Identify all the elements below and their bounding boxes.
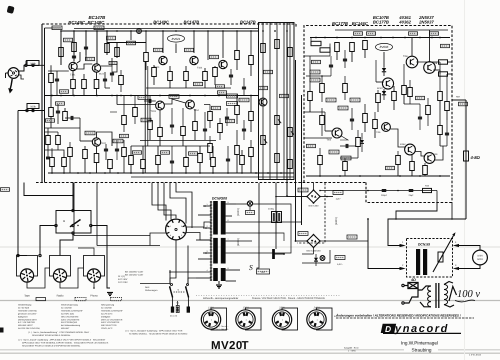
junction bottom rail <box>199 172 201 174</box>
svg-text:Ballspecht: Ballspecht <box>18 315 28 318</box>
resistor R16 <box>50 158 55 167</box>
diode D201 <box>382 68 386 72</box>
resistor R40 <box>249 112 254 121</box>
svg-text:Geräteleistung: Geräteleistung <box>18 304 31 307</box>
bus rail bottom y173 <box>48 172 294 174</box>
svg-text:T/09: T/09 <box>433 153 438 156</box>
svg-text:BC177B: BC177B <box>373 20 389 25</box>
svg-text:T/05: T/05 <box>376 131 381 134</box>
svg-text:( 4 ) · Bei md...: ( 4 ) · Bei md... <box>216 328 230 331</box>
resistor R27 <box>158 128 163 137</box>
svg-text:AC 10k/Volt: AC 10k/Volt <box>61 306 72 309</box>
svg-text:( 1 ) · Nur in „Sonderausführu: ( 1 ) · Nur in „Sonderausführung“ · FOR … <box>28 331 91 334</box>
label box g2 <box>109 61 117 64</box>
transformer core bar right <box>221 201 226 281</box>
junction <box>193 30 195 32</box>
junction mid rail <box>189 95 191 97</box>
svg-text:Radio: Radio <box>57 295 64 298</box>
junction rings ch2 <box>26 109 28 111</box>
hand core <box>435 283 437 308</box>
transformer stub r7 <box>226 269 240 271</box>
svg-text:MELUNT: MELUNT <box>61 327 70 330</box>
resistor R85 <box>133 108 138 117</box>
resistor R45 <box>288 48 293 57</box>
svg-text:8V021: 8V021 <box>172 37 181 41</box>
staircase wire s3 <box>368 219 400 269</box>
rotary selector Radio <box>50 256 71 277</box>
svg-text:AU RMV 10/Ω: AU RMV 10/Ω <box>61 312 74 315</box>
rotary selector Tape <box>17 256 38 277</box>
wire elco top <box>275 183 277 212</box>
transformer stub l8 <box>196 277 211 279</box>
tube socket V1 <box>166 219 187 240</box>
wire rotary1 feed <box>18 255 27 257</box>
bus v x287 long <box>286 23 288 197</box>
junction b2 bottom <box>359 175 361 177</box>
svg-text:( 3 ) · Nur m...: ( 3 ) · Nur m... <box>216 325 229 328</box>
wire row y140 <box>140 140 216 142</box>
transformer stub r3 <box>226 221 246 223</box>
wire mid h y104 <box>117 104 156 106</box>
wire v x163 <box>162 31 164 53</box>
snubber row wire <box>320 190 437 192</box>
junction <box>116 30 118 32</box>
staircase wire s4 <box>396 203 437 220</box>
capacitor C17 <box>242 86 246 88</box>
resistor R56 <box>392 92 397 101</box>
resistor R57 <box>402 86 407 95</box>
wire emitter T202 <box>433 69 440 71</box>
svg-text:Ausgabe : 9.b.b: Ausgabe : 9.b.b <box>344 346 359 349</box>
svg-text:Tape: Tape <box>24 295 30 298</box>
junction bottom rail <box>89 172 91 174</box>
junction b2 top <box>351 37 353 39</box>
switch lever <box>71 220 81 227</box>
wire collector T102 <box>97 132 113 146</box>
resistor R29 <box>193 122 198 131</box>
svg-text:BC/4: BC/4 <box>99 73 105 76</box>
wire lower left rows <box>45 150 65 152</box>
svg-text:Netzspannung: Netzspannung <box>101 304 114 307</box>
transformer stub r2 <box>226 215 232 217</box>
junction mid rail <box>204 95 206 97</box>
junction <box>162 30 164 32</box>
potentiometer P1 <box>275 116 280 125</box>
svg-text:240V: 240V <box>313 307 320 310</box>
resistor R42 <box>249 148 254 157</box>
svg-text:APPLICABLE ONLY FOR GENERAL EX: APPLICABLE ONLY FOR GENERAL EXPORT MODEL… <box>22 342 109 345</box>
transformer stub r5 <box>226 240 252 242</box>
hand check arrow <box>449 287 457 302</box>
capacitor C16 <box>226 158 230 160</box>
DIN input jack J1 <box>8 68 19 79</box>
diode D30 <box>314 258 318 261</box>
svg-text:T104: T104 <box>194 109 200 112</box>
resistor R4 <box>72 43 77 52</box>
pilot lamp <box>247 201 252 206</box>
resistor R32 <box>156 156 161 165</box>
transformer winding ticks <box>210 201 212 203</box>
svg-text:Netz: Netz <box>145 286 150 289</box>
socket view 110V <box>211 308 227 330</box>
board2 rail2 <box>335 29 448 31</box>
rule line bottom <box>0 352 500 354</box>
wire switch drops <box>169 270 171 285</box>
resistor R50 <box>311 41 321 45</box>
svg-text:Straubing: Straubing <box>411 347 431 352</box>
OT diagonal arrow <box>433 236 454 273</box>
capacitor C18 <box>242 128 246 130</box>
wire cross h246 <box>97 245 160 247</box>
wire mains h <box>140 283 170 285</box>
wire v x107 <box>106 31 108 55</box>
wire board1 v73 <box>72 183 74 196</box>
resistor R6 <box>115 48 120 57</box>
junction bottom rail <box>241 172 243 174</box>
svg-text:TENSION ALTERNATIF: TENSION ALTERNATIF <box>101 309 124 312</box>
svg-text:R43: R43 <box>425 185 430 188</box>
socket view 120V <box>246 308 262 330</box>
wire row y146 <box>131 145 210 147</box>
resistor R46 <box>275 154 280 163</box>
svg-text:2: 2 <box>207 225 208 228</box>
svg-text:Änderungen vorbehalten ! ALTER: Änderungen vorbehalten ! ALTERATIONS RES… <box>335 314 461 318</box>
label box b1 <box>354 32 363 35</box>
wire tone v4 <box>283 23 285 180</box>
resistor R3 <box>59 48 64 57</box>
elco C10 on rail <box>137 29 142 34</box>
Dynacord logo block <box>381 324 396 333</box>
snubber end wire <box>436 191 438 203</box>
wire v x117 <box>116 43 118 59</box>
chassis ground G2 <box>272 249 275 259</box>
wire b2 right col <box>440 145 447 147</box>
hand underline swoosh <box>455 300 475 302</box>
junction rings selector <box>17 254 19 256</box>
junction b2 bottom <box>419 175 421 177</box>
resistor R12 <box>63 112 68 121</box>
svg-text:7: 7 <box>228 238 229 241</box>
staircase wires to tube <box>152 183 166 221</box>
wire out to edge <box>452 99 466 101</box>
registration mark left edge <box>0 328 4 333</box>
junction bottom rail <box>117 172 119 174</box>
label box GR1a <box>298 188 308 192</box>
rotary selector Phono <box>84 256 105 277</box>
label box d3 <box>338 106 348 110</box>
svg-text:TENSION ALTERNATIF: TENSION ALTERNATIF <box>61 309 84 312</box>
svg-text:Bei 110/125V 1,6AT: Bei 110/125V 1,6AT <box>125 274 144 277</box>
resistor R39 <box>235 106 240 115</box>
boxes row y82 <box>194 82 203 85</box>
fuse F3 <box>187 307 190 313</box>
junction <box>262 30 264 32</box>
svg-text:2x40μ: 2x40μ <box>268 208 275 211</box>
arrow into OT pin2 <box>400 267 406 270</box>
junction bottom rail <box>185 172 187 174</box>
junction b2 top <box>439 37 441 39</box>
svg-text:MV20: MV20 <box>211 340 243 352</box>
svg-text:MITH AC-VOLTMETER: MITH AC-VOLTMETER <box>101 318 123 321</box>
wire b2 left <box>304 55 330 57</box>
fold crease vertical <box>464 0 466 360</box>
transformer bottom ground <box>218 281 220 284</box>
arrow into OT pin4 <box>453 244 459 247</box>
wire v x208 <box>207 31 209 60</box>
junction b2 bottom <box>339 175 341 177</box>
wire trafo to GR2 <box>296 240 308 242</box>
resistor R90 <box>343 162 348 171</box>
capacitor C13 <box>170 124 174 126</box>
wire psu left drop <box>258 183 260 261</box>
fuse F1 <box>171 307 174 313</box>
svg-text:4: 4 <box>455 241 457 244</box>
junction bottom rail <box>77 172 79 174</box>
resistor R20 <box>144 53 149 62</box>
output transformer dashed box <box>407 239 453 278</box>
resistor R33 <box>184 158 189 167</box>
junction b2 top <box>324 37 326 39</box>
resistor R37 <box>235 51 240 60</box>
wire left border stub <box>45 27 62 29</box>
board2 dashed bottom step <box>366 183 452 203</box>
svg-text:(100V): (100V) <box>237 208 240 216</box>
bus rail top second <box>74 28 259 30</box>
svg-text:Tab: Tab <box>176 302 179 305</box>
capacitor C22 <box>345 144 347 148</box>
wire input2 vertical <box>17 111 19 256</box>
resistor R8 <box>71 80 76 89</box>
label box ch2b <box>85 131 95 135</box>
junction mid rail <box>96 95 98 97</box>
OT core bar B <box>423 249 427 275</box>
junction <box>145 30 147 32</box>
resistor R60 <box>308 92 313 101</box>
resistor R7 <box>49 74 54 83</box>
svg-text:T/02: T/02 <box>327 139 332 142</box>
capacitor C11 <box>229 74 233 76</box>
bus rail top y31 <box>61 30 259 32</box>
wire fill g <box>204 104 210 106</box>
resistor R88 <box>343 84 348 93</box>
label box CUM <box>227 102 238 106</box>
label box t3 <box>280 94 289 97</box>
svg-text:T/06: T/06 <box>403 55 408 58</box>
transistor T108 <box>259 98 267 106</box>
wire switch right leg <box>92 226 110 289</box>
resistor R89 <box>356 138 361 147</box>
wire v x131 <box>130 31 132 40</box>
transistor T202 <box>424 62 436 74</box>
wire ch2 horizontal <box>18 110 45 112</box>
wire trafo l7 to fuse <box>170 271 190 273</box>
svg-text:CRVR,-ACC.: CRVR,-ACC. <box>101 327 113 330</box>
svg-text:500Ω: 500Ω <box>477 258 483 261</box>
capacitor C83 <box>418 116 422 118</box>
resistor R87 <box>320 116 325 125</box>
capacitor C12 <box>148 99 150 103</box>
svg-text:4: 4 <box>170 234 172 237</box>
resistor R95 <box>218 124 223 133</box>
resistor R68 <box>438 126 443 135</box>
wire cross h236 <box>74 235 150 237</box>
transistor T201 <box>406 56 418 68</box>
resistor R15 <box>108 160 113 169</box>
resistor R43 <box>261 44 266 53</box>
switch contacts <box>55 224 57 226</box>
resistor R80 <box>46 136 51 145</box>
svg-text:(240V): (240V) <box>335 217 338 225</box>
fold crease line <box>0 246 500 248</box>
svg-text:SEULEMENT POUR LE MODELE D’EXP: SEULEMENT POUR LE MODELE D’EXPORTATION G… <box>22 345 81 348</box>
resistor R64 <box>410 162 415 171</box>
junction <box>250 30 252 32</box>
wire fill b2 h2 <box>340 157 358 159</box>
svg-text:T103: T103 <box>151 110 157 113</box>
svg-text:Phono: Phono <box>90 295 98 298</box>
label box t2 <box>264 70 273 73</box>
transformer primary winding wire <box>210 201 212 281</box>
junction bottom rail <box>280 172 282 174</box>
resistor R21 <box>152 68 157 77</box>
board1 solid left border <box>41 24 43 183</box>
junction bottom rail <box>63 172 65 174</box>
junction <box>274 30 276 32</box>
resistor R44 <box>275 40 280 49</box>
label box f2 <box>120 134 129 137</box>
shield arrow under jack <box>10 79 12 89</box>
svg-text:B.C. VOLTMETER: B.C. VOLTMETER <box>18 321 35 324</box>
svg-text:4: 4 <box>207 269 208 272</box>
socket view 220V <box>282 308 298 330</box>
label box out <box>441 44 450 47</box>
junction bottom rail <box>227 172 229 174</box>
transformer stub l2 <box>198 214 211 216</box>
svg-text:Ing.W.Pinternagel: Ing.W.Pinternagel <box>401 341 438 346</box>
junction mid rail <box>236 95 238 97</box>
junction <box>236 30 238 32</box>
wire speaker top <box>459 246 480 251</box>
wire switch to phono <box>78 248 94 256</box>
capacitor C14 <box>203 128 207 130</box>
wire v x61 <box>60 31 62 65</box>
capacitor C15 <box>170 160 174 162</box>
label box top4 <box>107 36 116 40</box>
label box S <box>257 269 270 274</box>
resistor R69 speaker <box>464 151 469 161</box>
wire speaker bottom <box>459 265 480 269</box>
resistor R55 <box>376 94 381 103</box>
wire emitter T201 <box>416 61 440 63</box>
pilot label box <box>246 211 255 215</box>
socket view 240V <box>317 308 333 330</box>
junction bottom rail <box>157 172 159 174</box>
wire GR2 out <box>320 240 368 242</box>
transistor T102 <box>92 64 100 72</box>
label box n2 <box>169 95 179 99</box>
capacitor C23 <box>445 132 449 134</box>
legend swatch 2 <box>75 298 86 301</box>
resistor R38 <box>249 56 254 65</box>
wire b2 misc2 <box>304 137 332 139</box>
junction <box>106 30 108 32</box>
resistor R94 <box>208 112 213 121</box>
transformer core gap2 <box>213 264 226 269</box>
transformer stub l4 <box>196 239 211 241</box>
svg-text:1: 1 <box>207 203 208 206</box>
oval label 8V021 <box>168 35 185 42</box>
capacitor C7 <box>104 148 108 150</box>
resistor R84 <box>122 148 127 157</box>
junction b2 top <box>431 37 433 39</box>
svg-text:2: 2 <box>402 264 404 267</box>
resistor 560k input <box>27 61 39 66</box>
wire T203 base <box>376 81 384 83</box>
resistor R47 <box>288 160 293 169</box>
junction bottom rail <box>267 172 269 174</box>
bus rail bottom second <box>131 176 294 178</box>
wire v x176 <box>175 44 177 54</box>
hand resistor box <box>408 283 418 289</box>
wire b2 misc1 <box>304 111 325 113</box>
transformer stub r6 <box>226 252 248 254</box>
wire GR1 top stub <box>313 183 315 190</box>
junction <box>73 30 75 32</box>
tone section solid box <box>259 23 295 180</box>
junction mid rail <box>175 95 177 97</box>
resistor R10 <box>94 80 99 89</box>
wire elco bottom <box>275 223 277 250</box>
bus rail mid y95 <box>45 95 259 97</box>
junction mid rail <box>116 95 118 97</box>
junction bottom rail <box>51 172 53 174</box>
resistor R63 <box>396 156 401 165</box>
bridge rectifier GR2 <box>307 235 320 248</box>
bus v x301.5 long <box>301 95 303 225</box>
staircase wire s1 <box>388 219 466 246</box>
svg-text:M: M <box>63 220 65 223</box>
wire stage1 links <box>48 70 69 72</box>
transistor T206 <box>405 144 416 155</box>
svg-text:Potente / VOLTAGE SELECTOR · P: Potente / VOLTAGE SELECTOR · Potenti - S… <box>252 297 325 300</box>
wire switch bottom leg <box>60 234 73 255</box>
resistor R13 <box>83 150 88 159</box>
transistor T107 <box>186 100 195 109</box>
resistor R34 <box>198 154 203 163</box>
resistor R91 <box>318 156 323 165</box>
svg-text:ELECTRONIQUE: ELECTRONIQUE <box>61 321 78 324</box>
svg-text:8V006: 8V006 <box>380 45 389 49</box>
wire elco to gr1 <box>276 196 307 198</box>
diode D203 <box>360 140 364 143</box>
wire base T102 <box>80 140 92 142</box>
label box d6 <box>386 166 395 169</box>
arrow into OT pin3 <box>453 267 459 270</box>
junction rings input <box>25 64 27 66</box>
resistor R14 <box>94 154 99 163</box>
capacitor C81 <box>115 148 119 150</box>
board2 top rail <box>310 37 450 39</box>
board1 dashed right border <box>295 24 297 28</box>
resistor R54 <box>363 41 368 50</box>
label box r1 <box>239 98 249 102</box>
transistor T101 <box>69 62 77 70</box>
wire ch2 row <box>45 127 81 129</box>
capacitor C82 <box>329 64 333 66</box>
junction mid rail <box>145 95 147 97</box>
transformer stub l5 <box>203 252 211 254</box>
transistor T103lower <box>92 138 100 146</box>
